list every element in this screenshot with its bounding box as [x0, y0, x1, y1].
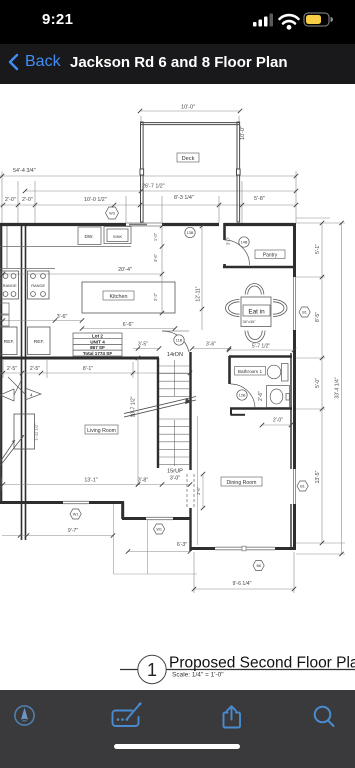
stair left dim [133, 349, 229, 485]
svg-text:9'-6 1/4": 9'-6 1/4" [233, 581, 252, 587]
lot table [73, 333, 122, 356]
svg-text:2'-5": 2'-5" [7, 366, 17, 372]
kitchen counter line [0, 246, 131, 248]
svg-text:13'-5": 13'-5" [315, 470, 321, 483]
svg-text:3'-6": 3'-6" [196, 486, 201, 495]
right dim chain [296, 223, 345, 554]
mid dim line [0, 360, 192, 378]
search icon [315, 707, 334, 726]
svg-text:4: 4 [30, 393, 33, 398]
svg-text:RANGE: RANGE [3, 283, 17, 288]
svg-text:12B: 12B [239, 394, 246, 398]
signature/markup box icon [113, 704, 141, 726]
svg-text:Bathroom 1: Bathroom 1 [238, 369, 263, 374]
svg-text:RANGE: RANGE [31, 283, 45, 288]
svg-text:3'-6": 3'-6" [206, 342, 216, 348]
svg-text:12'-11": 12'-11" [196, 286, 202, 301]
svg-text:54'-4 3/4": 54'-4 3/4" [13, 168, 36, 174]
left edge wall [0, 226, 2, 503]
title block [120, 655, 355, 684]
stair break lines [124, 397, 196, 418]
svg-text:26'-7 1/2": 26'-7 1/2" [142, 184, 165, 190]
svg-text:20'-4": 20'-4" [118, 267, 132, 273]
RANGE 2 [28, 271, 50, 299]
svg-text:15rUP: 15rUP [167, 469, 183, 475]
REF boxes [0, 327, 50, 355]
dining room [221, 477, 262, 486]
svg-text:2'-6": 2'-6" [258, 391, 264, 401]
stair door arc [162, 331, 189, 352]
bathroom sink [267, 386, 290, 408]
svg-text:B1: B1 [302, 311, 307, 315]
svg-text:Deck: Deck [182, 156, 195, 162]
svg-text:33'-4 1/4": 33'-4 1/4" [335, 377, 341, 398]
svg-text:10'-0 1/2": 10'-0 1/2" [84, 197, 107, 203]
bathroom toilet [267, 364, 288, 382]
RANGE 1 [1, 271, 19, 299]
svg-text:REF.: REF. [4, 339, 14, 345]
svg-text:2'-5": 2'-5" [30, 366, 40, 372]
left party wall (double) [22, 226, 26, 540]
mid wall [0, 357, 159, 360]
svg-text:5'-7 1/2": 5'-7 1/2" [252, 344, 271, 350]
dining bottom dim [194, 552, 294, 593]
fireplace / chase [0, 414, 35, 466]
svg-text:W1: W1 [73, 513, 79, 517]
svg-text:2'-0": 2'-0" [5, 197, 16, 203]
main top exterior wall [0, 223, 294, 226]
markup pen-in-circle icon [15, 706, 34, 725]
svg-text:3'-2": 3'-2" [153, 292, 158, 301]
svg-text:2'-0": 2'-0" [22, 197, 33, 203]
living room [85, 425, 118, 434]
svg-text:DW.: DW. [84, 234, 93, 240]
svg-text:1'-0": 1'-0" [153, 232, 158, 241]
svg-text:W3: W3 [109, 212, 115, 216]
svg-text:Proposed Second Floor Plan: Proposed Second Floor Plan [169, 655, 355, 672]
kitchen island [82, 282, 175, 313]
svg-text:2'-0": 2'-0" [273, 418, 283, 424]
svg-text:SINK: SINK [113, 234, 123, 239]
circle markers [174, 227, 249, 400]
svg-text:13'-1": 13'-1" [84, 478, 97, 484]
bathroom [229, 356, 292, 415]
svg-text:10'-0": 10'-0" [240, 126, 246, 140]
bottom-left dims [2, 536, 190, 552]
kitchen dims [57, 267, 134, 328]
pantry [223, 223, 294, 268]
bathroom door arc [231, 384, 256, 409]
svg-text:11B: 11B [176, 339, 183, 343]
svg-text:8'-3 1/4": 8'-3 1/4" [174, 195, 194, 201]
svg-text:Dining Room: Dining Room [227, 480, 257, 486]
svg-text:10'-0": 10'-0" [181, 105, 195, 111]
dimension tick marks [0, 109, 344, 591]
svg-text:Lot 2: Lot 2 [92, 334, 103, 339]
svg-text:6'-3": 6'-3" [177, 542, 187, 548]
slider door opening in top wall [126, 223, 162, 226]
living dim line [2, 477, 190, 490]
svg-text:REF.: REF. [34, 339, 44, 345]
small rotated dims [34, 232, 231, 495]
dashed under-stair [187, 474, 194, 508]
bottom toolbar [0, 690, 355, 768]
svg-text:3'-6": 3'-6" [153, 253, 158, 262]
dim texts top [5, 105, 265, 204]
battery [304, 13, 329, 26]
stairs [158, 352, 191, 551]
cellular signal bars [253, 14, 273, 27]
wifi icon [280, 15, 299, 23]
svg-text:1'-11 1/2": 1'-11 1/2" [34, 423, 39, 441]
svg-text:UNIT 4: UNIT 4 [90, 339, 105, 344]
svg-text:1: 1 [147, 660, 157, 680]
svg-text:5'-8": 5'-8" [254, 196, 265, 202]
eat in table [226, 284, 288, 343]
right exterior wall [291, 223, 295, 550]
svg-text:3'-0": 3'-0" [170, 476, 180, 482]
svg-text:867 SF: 867 SF [90, 345, 105, 350]
svg-text:Kitchen: Kitchen [110, 294, 128, 300]
right wall windows [293, 277, 295, 504]
svg-text:5'-0": 5'-0" [315, 378, 321, 388]
svg-text:Eat in: Eat in [248, 309, 265, 316]
pantry door arc [225, 240, 250, 265]
share icon [224, 706, 241, 727]
svg-text:W1: W1 [156, 528, 162, 532]
bathroom dims [252, 344, 283, 424]
home indicator [114, 744, 240, 749]
svg-text:13B: 13B [187, 231, 194, 235]
svg-text:6'-6": 6'-6" [123, 322, 134, 328]
svg-text:9'-7": 9'-7" [68, 528, 78, 534]
porch thin outline [114, 504, 198, 574]
hexagon markers [70, 207, 310, 571]
svg-text:14B: 14B [241, 241, 248, 245]
Deck label [177, 153, 199, 162]
bottom-left exterior wall [0, 502, 192, 519]
dining bottom wall [190, 547, 294, 550]
svg-text:36"x36": 36"x36" [243, 320, 257, 324]
svg-text:Scale: 1/4" = 1'-0": Scale: 1/4" = 1'-0" [172, 672, 224, 679]
svg-text:8'-5": 8'-5" [315, 312, 321, 322]
svg-text:Total 1774 SF: Total 1774 SF [83, 351, 112, 356]
content: floor plan drawing [0, 84, 355, 690]
wall type triangle [8, 377, 41, 400]
svg-text:Pantry: Pantry [263, 253, 278, 259]
dimension extension lines top [140, 116, 142, 122]
deck [140, 122, 240, 222]
Kitchen label [103, 291, 134, 300]
svg-text:Living Room: Living Room [87, 428, 116, 434]
status bar [0, 0, 355, 44]
svg-text:8'-1": 8'-1" [83, 366, 93, 372]
svg-text:10'-7 1/2": 10'-7 1/2" [131, 396, 137, 417]
svg-text:3'-6": 3'-6" [57, 314, 68, 320]
svg-text:5'-1": 5'-1" [315, 244, 321, 254]
left edge cabinets [0, 226, 9, 326]
svg-text:3'-0": 3'-0" [226, 236, 231, 245]
svg-text:14rDN: 14rDN [167, 352, 183, 358]
svg-text:B6: B6 [256, 564, 261, 568]
DW [78, 227, 101, 245]
left unit triangle marker [0, 381, 21, 401]
navigation bar [0, 44, 355, 84]
SINK [104, 227, 131, 244]
svg-text:B1: B1 [300, 485, 305, 489]
